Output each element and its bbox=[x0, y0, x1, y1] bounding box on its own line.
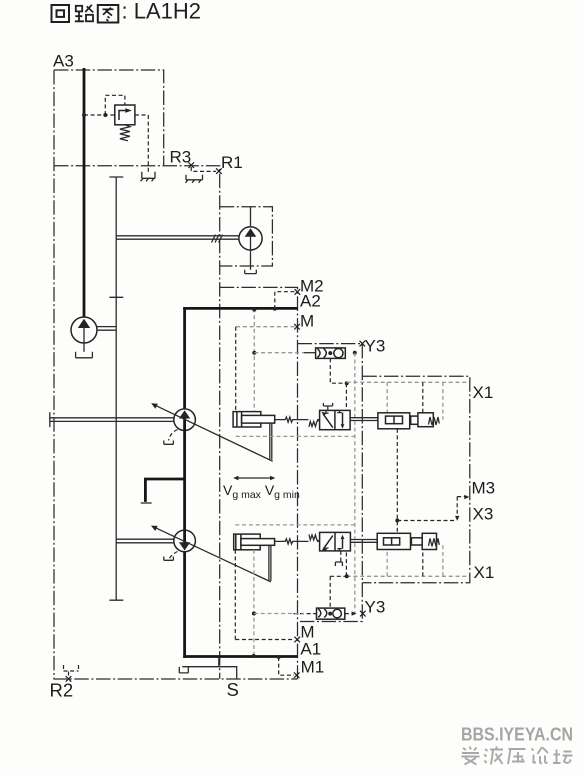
svg-text:Y3: Y3 bbox=[365, 337, 386, 356]
svg-text:BBS.IYEYA.CN: BBS.IYEYA.CN bbox=[461, 725, 573, 745]
svg-text:M: M bbox=[300, 622, 314, 641]
svg-text:M1: M1 bbox=[301, 657, 325, 676]
svg-text:X1: X1 bbox=[473, 383, 494, 402]
svg-text:Y3: Y3 bbox=[365, 597, 386, 616]
svg-text:S: S bbox=[227, 679, 239, 700]
svg-text:Vg max Vg min: Vg max Vg min bbox=[223, 482, 300, 501]
svg-text:R1: R1 bbox=[221, 153, 243, 172]
svg-text:M: M bbox=[300, 311, 314, 330]
svg-text:A3: A3 bbox=[53, 52, 74, 71]
svg-text:R3: R3 bbox=[170, 148, 192, 167]
svg-text:X1: X1 bbox=[474, 563, 495, 582]
svg-text:M3: M3 bbox=[472, 479, 496, 498]
svg-text:X3: X3 bbox=[473, 505, 494, 524]
svg-text:R2: R2 bbox=[50, 680, 74, 701]
svg-text:A2: A2 bbox=[300, 291, 321, 310]
svg-text:A1: A1 bbox=[300, 640, 321, 659]
svg-text:: LA1H2: : LA1H2 bbox=[122, 0, 202, 24]
